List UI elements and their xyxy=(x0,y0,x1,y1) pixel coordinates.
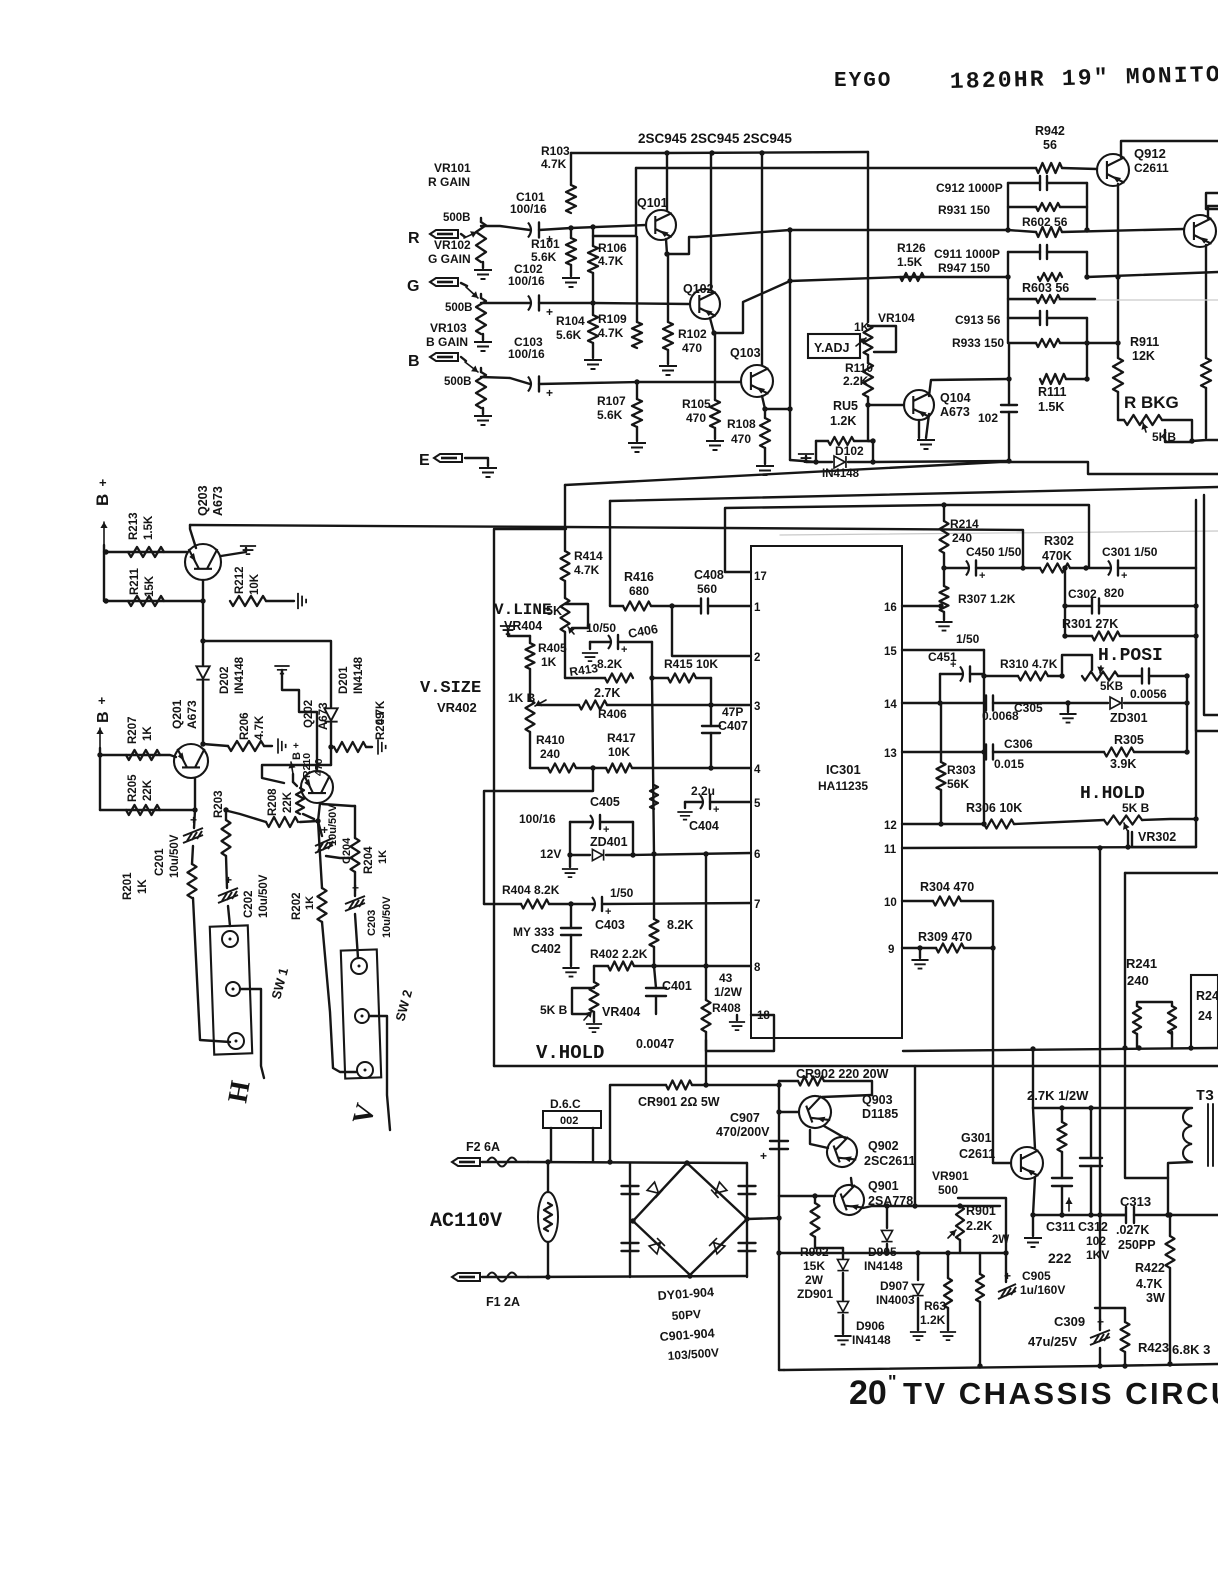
wire G row to Q102 base xyxy=(539,303,689,304)
pin15 row xyxy=(902,649,984,651)
SW1 pin3 circle xyxy=(228,1033,244,1049)
resistor R101 (vertical) xyxy=(570,228,572,238)
IC301 box xyxy=(751,546,902,1038)
svg-text:R206: R206 xyxy=(239,713,251,741)
wiper box 5K xyxy=(565,604,588,628)
svg-text:ZD401: ZD401 xyxy=(590,835,628,849)
node R110 Q104 base xyxy=(865,402,870,407)
svg-text:17: 17 xyxy=(754,571,767,583)
svg-text:1.2K: 1.2K xyxy=(920,1313,946,1327)
ground under R104 xyxy=(584,360,602,369)
svg-text:+: + xyxy=(1004,1269,1011,1283)
wire R BKG to right edge xyxy=(1192,440,1218,441)
D.G.C legs xyxy=(550,1128,552,1162)
node B+ R211 xyxy=(103,598,108,603)
wire Q103 emitter feedback xyxy=(765,408,790,410)
outer box bottom edge xyxy=(494,1065,1218,1067)
svg-text:3W: 3W xyxy=(1146,1291,1165,1305)
capacitor C313 xyxy=(1100,1214,1125,1216)
transistor Q104 xyxy=(904,390,934,420)
svg-text:+: + xyxy=(98,693,106,708)
svg-text:H.POSI: H.POSI xyxy=(1098,646,1163,666)
transistor Q901 xyxy=(830,1181,868,1219)
ground under D907 xyxy=(910,1332,926,1340)
wire y460 from x790 xyxy=(790,460,816,462)
svg-text:C402: C402 xyxy=(531,942,561,956)
wire Q101 collector xyxy=(666,153,668,211)
svg-text:D1185: D1185 xyxy=(862,1107,898,1121)
svg-text:B GAIN: B GAIN xyxy=(426,335,468,349)
wire1 corner down to VR104 xyxy=(867,152,869,322)
svg-text:102: 102 xyxy=(978,411,998,425)
ground under VR102 xyxy=(482,334,484,340)
svg-text:222: 222 xyxy=(1048,1250,1072,1266)
capacitor 0.0056 xyxy=(1118,675,1141,677)
switch SW2 box xyxy=(341,949,381,1078)
node B+ R213 xyxy=(103,549,108,554)
capacitor C101 xyxy=(528,223,531,238)
transistor QG right edge xyxy=(1184,215,1216,247)
deflection box xyxy=(1125,873,1168,1178)
svg-text:10K: 10K xyxy=(249,573,261,595)
svg-text:13: 13 xyxy=(884,748,897,760)
capacitor C901 xyxy=(622,1185,639,1187)
svg-text:V.SIZE: V.SIZE xyxy=(420,679,481,698)
emitter row Q901 xyxy=(863,1206,1000,1208)
svg-text:CR902 220 20W: CR902 220 20W xyxy=(796,1067,889,1081)
svg-text:1K: 1K xyxy=(142,726,154,741)
R310 row / H.POSI pot xyxy=(984,675,1018,677)
svg-text:R405: R405 xyxy=(538,641,567,655)
svg-text:240: 240 xyxy=(540,747,560,761)
svg-text:Q902: Q902 xyxy=(868,1139,899,1153)
svg-text:+: + xyxy=(99,475,107,490)
wire VR901 bottom xyxy=(959,1240,961,1253)
potentiometer 5K V.LINE xyxy=(564,581,566,598)
ground under R108 xyxy=(756,466,774,475)
node R203 top xyxy=(223,807,228,812)
svg-text:.027K: .027K xyxy=(1116,1223,1149,1237)
zigzag on x654 xyxy=(650,785,658,809)
right riser x1187 xyxy=(1186,676,1188,752)
wire Q103 emitter xyxy=(762,396,765,409)
wire y1215 G301 emitter row xyxy=(1033,1214,1125,1216)
capacitor C907 on rail xyxy=(770,1140,788,1142)
pin7 row R404 C403 xyxy=(484,903,521,905)
resistor R63 (vertical) xyxy=(947,1253,949,1278)
wire R213 row xyxy=(104,551,187,553)
node wire3 x1008 xyxy=(1005,274,1010,279)
wire3 B channel long xyxy=(790,277,1008,281)
svg-text:12K: 12K xyxy=(1132,349,1155,363)
svg-text:+: + xyxy=(760,1149,767,1163)
wire QG collector xyxy=(1208,206,1218,218)
SW1 pin2 circle xyxy=(226,982,240,996)
resistor R413 xyxy=(605,674,633,683)
node RU5 right x873 xyxy=(870,438,875,443)
resistor R302 xyxy=(1023,567,1040,569)
bridge diode D903 xyxy=(649,1238,665,1254)
svg-text:5K B: 5K B xyxy=(540,1003,568,1017)
wire box x1006 xyxy=(958,1198,1006,1253)
capacitor C309 xyxy=(1099,1308,1101,1330)
diode D907 xyxy=(917,1253,919,1280)
pin6 row ZD401 xyxy=(570,854,590,856)
svg-text:R309 470: R309 470 xyxy=(918,930,972,944)
svg-text:6.8K 3: 6.8K 3 xyxy=(1172,1342,1210,1357)
node D201 R209 xyxy=(328,744,333,749)
pin10 row R304 xyxy=(902,900,933,902)
capacitor C912 xyxy=(1008,182,1040,184)
node Q101 collector on wire1 xyxy=(664,150,669,155)
svg-text:0.0056: 0.0056 xyxy=(1130,687,1167,701)
wire Q101 emitter to R102 xyxy=(666,239,667,254)
svg-text:Q203: Q203 xyxy=(196,485,210,516)
svg-text:10u/50V: 10u/50V xyxy=(169,834,181,878)
svg-text:R201: R201 xyxy=(122,872,134,900)
riser C451 to pin14 xyxy=(939,674,941,703)
transformer T3 core xyxy=(1207,1104,1209,1166)
resistor R241 left leg xyxy=(1133,1006,1141,1034)
svg-text:6: 6 xyxy=(754,849,760,861)
wiper box R BKG xyxy=(1162,420,1192,442)
wire D pin17 feedback xyxy=(725,505,1089,572)
svg-text:15K: 15K xyxy=(803,1259,825,1273)
svg-text:C911 1000P: C911 1000P xyxy=(934,247,1000,261)
resistor R213 xyxy=(128,547,164,557)
svg-text:D907: D907 xyxy=(880,1279,909,1293)
transistor Q203 xyxy=(185,544,221,580)
svg-text:Q901: Q901 xyxy=(868,1179,899,1193)
resistor G BKG (right edge vertical) xyxy=(1201,358,1211,388)
node x1100 on y1215 xyxy=(1097,1212,1102,1217)
svg-text:250PP: 250PP xyxy=(1118,1238,1156,1252)
wire Q104 collector to R111 row xyxy=(929,379,1009,396)
capacitor C902 xyxy=(739,1185,756,1187)
resistor R241 right leg xyxy=(1168,1006,1176,1034)
resistor R202 (vertical) xyxy=(318,821,322,888)
svg-text:15K: 15K xyxy=(144,575,156,597)
svg-text:470: 470 xyxy=(731,432,751,446)
svg-text:IN4148: IN4148 xyxy=(234,656,246,694)
node B row R109/R107 xyxy=(634,379,639,384)
ground R405 top xyxy=(500,626,516,634)
connector B input xyxy=(430,353,458,361)
svg-text:C305: C305 xyxy=(1014,701,1043,715)
svg-text:IN4148: IN4148 xyxy=(852,1333,891,1347)
riser x1100 lower to C309 bracket xyxy=(1099,1215,1101,1308)
resistor R405 (vertical) xyxy=(529,636,531,643)
capacitor C905 xyxy=(1005,1253,1007,1282)
capacitor C903 xyxy=(622,1242,639,1244)
svg-text:2.2K: 2.2K xyxy=(966,1219,992,1233)
potentiometer VR103 500B xyxy=(476,372,486,408)
resistor R603 xyxy=(1008,298,1036,300)
wire E to ground xyxy=(465,458,488,466)
svg-text:R101: R101 xyxy=(531,237,560,251)
wire R911 top from emitter line xyxy=(1118,419,1124,421)
svg-text:4.7K: 4.7K xyxy=(541,157,567,171)
svg-text:C451: C451 xyxy=(928,650,957,664)
svg-text:+: + xyxy=(225,873,232,887)
SW1 pin1 circle xyxy=(222,931,238,947)
svg-text:22K: 22K xyxy=(142,779,154,801)
transistor Q201 xyxy=(174,744,208,778)
wire Q203 collector to long line xyxy=(190,525,196,548)
wire G301 emitter xyxy=(1033,1177,1035,1215)
wire Q104 base xyxy=(868,404,904,406)
H box left edge x984 xyxy=(983,650,985,824)
resistor 2.7K (vertical) xyxy=(1061,1108,1063,1122)
svg-text:AC110V: AC110V xyxy=(430,1210,502,1233)
svg-text:G: G xyxy=(407,278,419,295)
svg-text:ZD901: ZD901 xyxy=(797,1287,833,1301)
wire T3 top to 2.7K row xyxy=(1033,1107,1192,1109)
diode D102 xyxy=(816,461,832,463)
capacitor C407 xyxy=(710,705,712,726)
node R BKG out xyxy=(1189,438,1194,443)
bridge side rail left xyxy=(629,1163,631,1277)
svg-text:R404 8.2K: R404 8.2K xyxy=(502,883,560,897)
svg-text:C912 1000P: C912 1000P xyxy=(936,181,1003,195)
svg-text:R109: R109 xyxy=(598,312,627,326)
switch SW1 box xyxy=(210,925,252,1054)
node G row R104 xyxy=(590,300,595,305)
svg-text:8.2K: 8.2K xyxy=(667,918,693,932)
svg-text:2: 2 xyxy=(754,652,760,664)
svg-text:47P: 47P xyxy=(722,705,743,719)
thermistor legs xyxy=(547,1162,549,1192)
svg-text:+: + xyxy=(605,906,611,918)
svg-text:R208: R208 xyxy=(267,788,279,816)
svg-text:680: 680 xyxy=(629,584,649,598)
svg-text:C403: C403 xyxy=(595,918,625,932)
svg-text:0.0047: 0.0047 xyxy=(636,1037,674,1051)
wire 5K pot to R413 row xyxy=(564,632,566,678)
svg-text:VR302: VR302 xyxy=(1138,830,1176,844)
wire QG emitter vertical xyxy=(1205,245,1207,358)
svg-text:R: R xyxy=(408,230,420,247)
wire Q903 collector xyxy=(822,1095,872,1097)
resistor R602 on wire2 xyxy=(1036,227,1062,237)
svg-text:C313: C313 xyxy=(1120,1194,1151,1209)
svg-text:Q912: Q912 xyxy=(1134,146,1166,161)
wire Q912 collector xyxy=(1121,141,1218,157)
svg-text:1/2W: 1/2W xyxy=(714,985,743,999)
bottom chassis wire xyxy=(784,1364,1218,1370)
ground right of R212 xyxy=(298,593,306,609)
svg-text:5K: 5K xyxy=(546,604,562,618)
svg-text:3: 3 xyxy=(754,701,760,713)
transistor Q103 xyxy=(741,365,773,397)
svg-text:R303: R303 xyxy=(947,763,976,777)
wire T3 bottom xyxy=(1168,1162,1192,1215)
resistor R105 (vertical) xyxy=(714,333,716,400)
resistor R901 (vertical) xyxy=(979,1253,981,1274)
svg-text:VR402: VR402 xyxy=(437,700,477,715)
pin1 row R416 C408 xyxy=(610,605,623,607)
wire R212 to ground xyxy=(266,600,294,602)
fuse F1 xyxy=(452,1273,480,1281)
svg-text:+: + xyxy=(713,804,719,816)
svg-text:R214: R214 xyxy=(950,517,979,531)
VR302 box xyxy=(1131,832,1133,847)
diode D202 xyxy=(202,641,204,665)
svg-text:8: 8 xyxy=(754,962,761,974)
svg-text:IN4003: IN4003 xyxy=(876,1293,915,1307)
wire Q202 collector path to ground xyxy=(282,670,317,771)
wire Q901 base xyxy=(815,1195,835,1197)
node Q201 collector R206 xyxy=(200,741,205,746)
svg-text:1u/160V: 1u/160V xyxy=(1020,1283,1065,1297)
capacitor C402 xyxy=(570,904,572,928)
pin12 row R306 / H.HOLD pot xyxy=(902,823,984,825)
capacitor C312 xyxy=(1090,1108,1092,1158)
svg-text:R24: R24 xyxy=(1196,989,1218,1003)
bracket3 stub left x1008 down to 343 xyxy=(1007,277,1009,343)
wire Q902 base xyxy=(810,1130,828,1148)
svg-text:VR102: VR102 xyxy=(434,238,471,252)
wiper box H.POSI xyxy=(1062,655,1092,676)
resistor R947 on wire3 xyxy=(1038,273,1062,281)
svg-text:Q104: Q104 xyxy=(940,391,971,405)
svg-text:R911: R911 xyxy=(1130,335,1159,349)
svg-text:A673: A673 xyxy=(211,486,225,516)
svg-text:002: 002 xyxy=(560,1115,578,1127)
svg-text:R931 150: R931 150 xyxy=(938,203,990,217)
wire F2 row to bridge top xyxy=(528,1162,747,1163)
resistor R911 (vertical) xyxy=(1117,343,1119,358)
vertical x1087 down from R111 xyxy=(1086,343,1088,379)
svg-text:500B: 500B xyxy=(443,212,471,224)
svg-text:C302: C302 xyxy=(1068,587,1097,601)
wire G301 collector xyxy=(1033,1108,1035,1149)
ground under R105 xyxy=(706,441,724,450)
svg-text:56: 56 xyxy=(1043,138,1057,152)
wire Q903 emitter to Q902 xyxy=(824,1126,845,1138)
node R row / R106 link xyxy=(590,224,595,229)
svg-text:T3: T3 xyxy=(1196,1088,1214,1105)
node R241 feet xyxy=(1136,1045,1141,1050)
svg-text:D102: D102 xyxy=(835,444,864,458)
svg-text:+: + xyxy=(603,824,609,836)
pin11 row xyxy=(902,847,1196,848)
Q912 emitter node to R911 xyxy=(1115,274,1120,279)
wire Q104 emitter to ground xyxy=(926,414,929,438)
svg-text:100/16: 100/16 xyxy=(508,347,545,361)
svg-text:R103: R103 xyxy=(541,144,570,158)
wire Q102 emitter xyxy=(710,318,714,333)
wire R channel y168 xyxy=(636,167,1036,169)
svg-text:100/16: 100/16 xyxy=(519,812,556,826)
svg-text:R423: R423 xyxy=(1138,1340,1169,1355)
svg-text:EYGO: EYGO xyxy=(834,70,892,93)
C302 row xyxy=(1065,605,1091,607)
svg-text:+: + xyxy=(546,386,553,400)
wiper box VR404 xyxy=(572,988,594,1014)
svg-text:R241: R241 xyxy=(1126,956,1157,971)
capacitor C204 diagonal xyxy=(318,821,322,836)
resistor R102 (vertical) xyxy=(667,254,669,322)
resistor R902 (vertical) xyxy=(814,1196,816,1203)
svg-text:+: + xyxy=(293,741,299,752)
svg-text:820: 820 xyxy=(1104,586,1124,600)
pin4 row xyxy=(530,767,548,769)
resistor R126 on wire3 xyxy=(900,273,924,281)
svg-text:IN4148: IN4148 xyxy=(353,656,365,694)
svg-text:1.2K: 1.2K xyxy=(830,414,856,428)
svg-text:R416: R416 xyxy=(624,570,654,584)
svg-text:5K B: 5K B xyxy=(1122,801,1150,815)
svg-text:VR103: VR103 xyxy=(430,321,467,335)
svg-text:R203: R203 xyxy=(213,791,225,819)
svg-text:2.2K: 2.2K xyxy=(843,374,869,388)
faint fold line y299 xyxy=(1008,299,1218,301)
svg-text:R414: R414 xyxy=(574,549,603,563)
svg-text:R901: R901 xyxy=(966,1204,996,1218)
riser x915 power to box xyxy=(914,1066,916,1206)
potentiometer R BKG 5KB xyxy=(1124,415,1162,425)
ground under R101 xyxy=(562,278,580,287)
svg-text:10u/50V: 10u/50V xyxy=(381,896,393,938)
svg-text:C407: C407 xyxy=(718,719,748,733)
node B+2 R207 xyxy=(97,752,102,757)
node C450 left xyxy=(941,565,946,570)
resistor R111 xyxy=(1040,374,1066,384)
bridge rectifier diamond xyxy=(633,1163,747,1275)
wire B top xyxy=(610,487,1218,501)
capacitor C201 xyxy=(194,810,195,828)
wire Q902 emitter to Q901 xyxy=(851,1178,852,1186)
svg-text:D201: D201 xyxy=(338,666,350,694)
connector E input xyxy=(434,454,462,462)
svg-text:R310 4.7K: R310 4.7K xyxy=(1000,657,1058,671)
svg-text:R933 150: R933 150 xyxy=(952,336,1004,350)
svg-text:5.6K: 5.6K xyxy=(556,328,582,342)
resistor CR902 row xyxy=(779,1080,798,1082)
resistor R204 (vertical) xyxy=(322,804,355,806)
svg-text:C404: C404 xyxy=(689,819,719,833)
capacitor C103 xyxy=(528,377,531,392)
wiper box VR104 xyxy=(856,338,866,346)
svg-text:R213: R213 xyxy=(128,513,140,541)
svg-text:A673: A673 xyxy=(940,405,970,419)
wire SW1 middle to H xyxy=(240,989,264,1078)
svg-text:R947 150: R947 150 xyxy=(938,261,990,275)
svg-text:+: + xyxy=(979,570,985,582)
svg-text:+: + xyxy=(546,305,553,319)
svg-text:47u/25V: 47u/25V xyxy=(1028,1334,1077,1349)
svg-text:2SC945 2SC945 2SC945: 2SC945 2SC945 2SC945 xyxy=(638,131,792,146)
zener ZD301 xyxy=(1068,702,1108,704)
svg-text:100/16: 100/16 xyxy=(510,202,547,216)
diode D201 xyxy=(324,708,337,721)
node 12V stub ground xyxy=(567,852,572,857)
svg-text:+: + xyxy=(621,644,627,656)
resistor R205 xyxy=(126,805,160,815)
potentiometer VR104 xyxy=(864,325,873,355)
svg-text:500B: 500B xyxy=(444,376,472,388)
resistor R201 (vertical) xyxy=(188,864,197,898)
svg-text:1K: 1K xyxy=(541,655,557,669)
resistor RU5 1.2K xyxy=(816,440,828,442)
svg-text:R603 56: R603 56 xyxy=(1022,281,1069,295)
resistor R307 (vertical) xyxy=(943,568,945,586)
capacitor C406 row xyxy=(582,653,598,661)
riser x1065 C450 to R301 xyxy=(1064,568,1066,636)
svg-text:MY 333: MY 333 xyxy=(513,925,554,939)
svg-text:2.7K 1/2W: 2.7K 1/2W xyxy=(1027,1088,1089,1103)
